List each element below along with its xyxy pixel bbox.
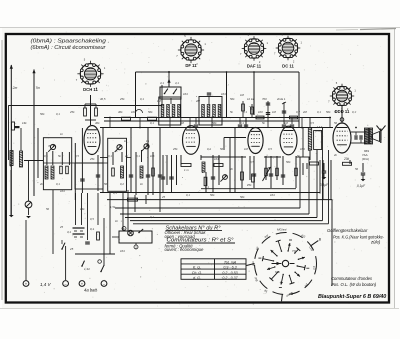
- svg-text:1M: 1M: [272, 110, 277, 114]
- svg-text:1,4 V: 1,4 V: [40, 282, 52, 287]
- svg-text:0,1: 0,1: [205, 185, 209, 189]
- svg-text:0,2: 0,2: [120, 182, 124, 186]
- svg-text:Pos. O.L. (W du bouton): Pos. O.L. (W du bouton): [331, 282, 377, 287]
- svg-text:DAF 11: DAF 11: [247, 64, 262, 69]
- svg-text:50k: 50k: [148, 110, 153, 114]
- svg-text:0,2 - 0,53: 0,2 - 0,53: [222, 271, 237, 275]
- svg-text:0,1: 0,1: [108, 154, 112, 158]
- svg-text:40k: 40k: [95, 121, 100, 125]
- svg-text:0,1: 0,1: [90, 227, 94, 231]
- svg-text:50: 50: [283, 110, 287, 114]
- svg-text:4,1: 4,1: [160, 81, 164, 85]
- svg-text:Sch: Sch: [275, 270, 280, 274]
- svg-text:0,1: 0,1: [352, 110, 356, 114]
- svg-text:Tbl: Tbl: [292, 249, 296, 253]
- svg-text:0,1μF: 0,1μF: [357, 184, 366, 188]
- svg-text:50k: 50k: [210, 193, 215, 197]
- svg-text:DC 11: DC 11: [282, 64, 294, 69]
- svg-text:DF 11: DF 11: [185, 63, 197, 68]
- svg-text:d. G.: d. G.: [193, 276, 201, 280]
- svg-text:2M: 2M: [195, 99, 201, 103]
- svg-text:ouvert : économique: ouvert : économique: [165, 247, 205, 252]
- svg-text:4a 1: 4a 1: [280, 97, 286, 101]
- svg-text:50: 50: [46, 207, 50, 211]
- svg-text:0,1μF: 0,1μF: [320, 183, 329, 187]
- svg-text:0,1: 0,1: [150, 215, 154, 219]
- svg-text:7m: 7m: [36, 86, 41, 90]
- svg-text:Commutateur d'ondes: Commutateur d'ondes: [331, 276, 373, 281]
- svg-text:1M: 1M: [157, 99, 162, 103]
- svg-text:Pos. K.G.(Naar kant getrokke-: Pos. K.G.(Naar kant getrokke-: [333, 234, 384, 239]
- svg-text:164: 164: [120, 249, 125, 253]
- svg-text:25: 25: [161, 195, 166, 199]
- svg-text:2k: 2k: [276, 97, 281, 101]
- svg-text:13k: 13k: [22, 121, 27, 125]
- svg-text:0,1: 0,1: [243, 110, 247, 114]
- svg-text:1,5k: 1,5k: [110, 205, 116, 209]
- svg-text:50: 50: [220, 147, 224, 151]
- svg-text:0,1: 0,1: [317, 110, 321, 114]
- svg-text:0,1: 0,1: [56, 112, 60, 116]
- svg-text:DCH 11: DCH 11: [83, 87, 98, 92]
- svg-text:164: 164: [270, 193, 275, 197]
- svg-text:50: 50: [334, 121, 338, 125]
- svg-text:12 ka: 12 ka: [247, 97, 254, 101]
- svg-text:0,5: 0,5: [268, 147, 272, 151]
- svg-text:13k: 13k: [80, 207, 85, 211]
- svg-text:50k: 50k: [40, 112, 45, 116]
- svg-text:0,1: 0,1: [56, 182, 60, 186]
- svg-text:164: 164: [183, 92, 188, 96]
- svg-text:Tot. mA: Tot. mA: [224, 260, 237, 264]
- svg-text:2M: 2M: [302, 110, 308, 114]
- svg-text:25k: 25k: [246, 183, 252, 187]
- svg-text:0,1: 0,1: [207, 147, 211, 151]
- svg-text:25: 25: [69, 247, 74, 251]
- svg-text:zūle): zūle): [370, 240, 381, 245]
- svg-text:0,1: 0,1: [136, 154, 140, 158]
- svg-text:2k: 2k: [333, 153, 338, 157]
- svg-text:4a batt: 4a batt: [84, 288, 98, 293]
- svg-text:1 m: 1 m: [184, 168, 189, 172]
- svg-text:40k: 40k: [118, 110, 123, 114]
- svg-text:2k: 2k: [124, 154, 129, 158]
- svg-text:50k: 50k: [326, 110, 331, 114]
- svg-text:0,5: 0,5: [75, 154, 79, 158]
- svg-text:0,1: 0,1: [113, 191, 117, 195]
- svg-text:4,1: 4,1: [175, 81, 179, 85]
- svg-text:0,5: 0,5: [250, 160, 254, 164]
- svg-text:Ch. G.: Ch. G.: [192, 271, 202, 275]
- svg-text:25k: 25k: [172, 147, 178, 151]
- svg-text:50k: 50k: [286, 160, 291, 164]
- svg-text:2m: 2m: [12, 86, 18, 90]
- svg-text:0,5: 0,5: [310, 121, 314, 125]
- svg-text:(6bmA) : Circuit économiseur: (6bmA) : Circuit économiseur: [31, 45, 106, 51]
- svg-text:(0bmA) : Spaarschakeling .: (0bmA) : Spaarschakeling .: [31, 38, 110, 44]
- svg-text:0,1: 0,1: [140, 97, 144, 101]
- svg-text:1M: 1M: [284, 121, 289, 125]
- svg-text:1n: 1n: [124, 139, 128, 143]
- svg-text:100: 100: [131, 110, 136, 114]
- svg-text:1,34: 1,34: [84, 267, 90, 271]
- svg-text:700: 700: [262, 97, 267, 101]
- svg-text:25: 25: [59, 225, 64, 229]
- svg-text:60: 60: [135, 197, 139, 201]
- svg-text:2M: 2M: [179, 121, 185, 125]
- svg-text:50k: 50k: [230, 97, 235, 101]
- svg-text:0,1: 0,1: [250, 107, 254, 111]
- svg-text:25k: 25k: [119, 97, 125, 101]
- svg-text:1n: 1n: [60, 132, 64, 136]
- svg-text:aan: aan: [251, 261, 255, 266]
- svg-text:3,1: 3,1: [67, 230, 71, 234]
- svg-text:20k: 20k: [343, 157, 350, 161]
- svg-text:10k: 10k: [150, 154, 155, 158]
- svg-text:(7/A): (7/A): [315, 129, 322, 133]
- svg-text:50k: 50k: [212, 121, 217, 125]
- svg-text:0,1: 0,1: [44, 154, 48, 158]
- svg-text:40,5: 40,5: [100, 97, 106, 101]
- svg-text:2k: 2k: [39, 182, 44, 186]
- svg-text:164: 164: [214, 157, 219, 161]
- svg-text:0,2: 0,2: [296, 110, 300, 114]
- svg-text:0,9 - 6,3: 0,9 - 6,3: [223, 266, 236, 270]
- svg-text:0,1: 0,1: [240, 121, 244, 125]
- svg-text:25k: 25k: [89, 157, 95, 161]
- svg-text:0,2 - 0,37: 0,2 - 0,37: [222, 276, 238, 280]
- svg-text:MG/ant: MG/ant: [277, 228, 287, 232]
- svg-text:50k: 50k: [240, 195, 245, 199]
- svg-text:0,1: 0,1: [150, 121, 154, 125]
- svg-text:1n: 1n: [146, 139, 150, 143]
- svg-text:0,5: 0,5: [90, 217, 94, 221]
- svg-text:1M: 1M: [240, 93, 245, 97]
- svg-text:Blaupunkt-Super 6 B 69/40: Blaupunkt-Super 6 B 69/40: [318, 294, 386, 300]
- svg-text:100: 100: [258, 110, 263, 114]
- svg-text:25k: 25k: [69, 110, 75, 114]
- svg-text:164: 164: [300, 147, 305, 151]
- svg-text:164: 164: [221, 92, 226, 96]
- svg-text:50: 50: [104, 182, 108, 186]
- svg-text:1M: 1M: [244, 147, 249, 151]
- svg-text:(D/A): (D/A): [362, 157, 369, 161]
- svg-text:0,1: 0,1: [186, 193, 190, 197]
- svg-text:K. G.: K. G.: [193, 266, 201, 270]
- svg-text:2k: 2k: [229, 167, 234, 171]
- svg-text:Golflengteschakelaar: Golflengteschakelaar: [327, 228, 368, 233]
- svg-text:164: 164: [60, 189, 65, 193]
- svg-text:50: 50: [355, 167, 359, 171]
